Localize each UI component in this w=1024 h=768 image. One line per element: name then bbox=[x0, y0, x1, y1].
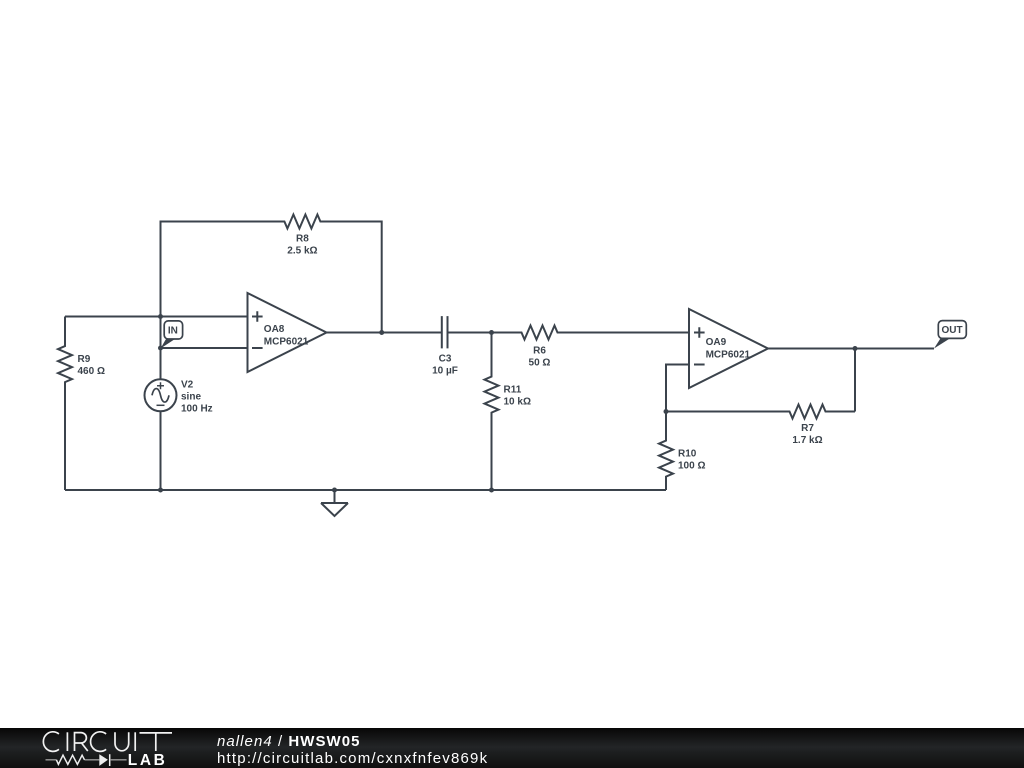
svg-text:R11: R11 bbox=[504, 385, 522, 396]
svg-text:C3: C3 bbox=[439, 354, 452, 365]
svg-text:sine: sine bbox=[181, 391, 201, 402]
svg-text:50 Ω: 50 Ω bbox=[529, 358, 551, 369]
svg-text:R6: R6 bbox=[533, 346, 546, 357]
svg-text:MCP6021: MCP6021 bbox=[264, 336, 309, 347]
svg-text:R7: R7 bbox=[801, 423, 814, 434]
svg-text:MCP6021: MCP6021 bbox=[706, 349, 751, 360]
svg-text:OA8: OA8 bbox=[264, 324, 285, 335]
svg-text:R9: R9 bbox=[78, 354, 91, 365]
svg-text:LAB: LAB bbox=[128, 752, 168, 768]
svg-text:460 Ω: 460 Ω bbox=[78, 366, 105, 377]
svg-text:100 Hz: 100 Hz bbox=[181, 403, 213, 414]
svg-text:10 µF: 10 µF bbox=[432, 366, 458, 377]
svg-text:R10: R10 bbox=[678, 449, 697, 460]
svg-text:IN: IN bbox=[168, 325, 178, 336]
svg-text:R8: R8 bbox=[296, 234, 309, 245]
svg-text:2.5 kΩ: 2.5 kΩ bbox=[287, 246, 317, 257]
svg-text:V2: V2 bbox=[181, 379, 194, 390]
svg-text:100 Ω: 100 Ω bbox=[678, 461, 705, 472]
svg-text:OUT: OUT bbox=[941, 325, 962, 336]
svg-text:10 kΩ: 10 kΩ bbox=[504, 397, 531, 408]
svg-text:OA9: OA9 bbox=[706, 337, 727, 348]
svg-text:1.7 kΩ: 1.7 kΩ bbox=[792, 435, 822, 446]
